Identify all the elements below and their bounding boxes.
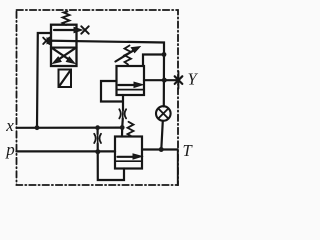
svg-text:p: p	[5, 140, 15, 159]
svg-text:T: T	[183, 141, 194, 160]
svg-text:x: x	[5, 116, 14, 135]
svg-text:Y: Y	[188, 69, 199, 88]
